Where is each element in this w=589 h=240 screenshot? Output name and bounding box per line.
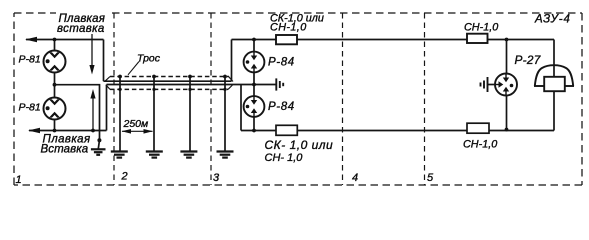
- arrester P-81 lower arrows and dot: [46, 99, 60, 117]
- node: bottom wire at arrester: [53, 129, 57, 133]
- node: top wire at arrester: [53, 38, 57, 42]
- arrester P-84 upper circle: [244, 52, 265, 73]
- wire: stem to P-84 upper: [253, 40, 255, 52]
- wire: P-27 to ground (section 5): [488, 84, 496, 86]
- wire: stem to P-27: [506, 40, 508, 74]
- wire: riser right of bundle to top wire: [231, 40, 233, 82]
- ground section 1: [91, 149, 106, 155]
- section separator 3/4: [342, 13, 344, 185]
- svg-text:250м: 250м: [123, 118, 149, 130]
- wire: riser top wire down to bundle (x=103.5): [103, 40, 105, 82]
- line pair solid upper: [104, 80, 232, 82]
- cable end diagonals left: [105, 77, 110, 82]
- junction support 2 upper: [152, 75, 156, 79]
- svg-text:Р-84: Р-84: [268, 57, 295, 69]
- wire: top line section 1 with left arrow: [26, 39, 104, 41]
- line pair solid lower: [107, 84, 276, 86]
- arrester P-81 upper arrows and dot: [46, 52, 60, 70]
- outer dashed border right: [581, 13, 583, 185]
- wire: bottom line section 1 with left arrow: [29, 130, 107, 132]
- telephone receiver box: [544, 77, 565, 91]
- svg-text:Р-27: Р-27: [515, 53, 541, 67]
- outer dashed border left: [13, 13, 15, 185]
- fuse leader arrow (bottom): [92, 97, 94, 131]
- svg-text:Трос: Трос: [137, 53, 161, 65]
- support ground 4: [217, 152, 234, 158]
- svg-text:5: 5: [427, 172, 434, 184]
- wire: stem lower P-81 to bottom wire: [54, 120, 56, 131]
- svg-text:СК- 1,0 или: СК- 1,0 или: [265, 138, 334, 152]
- section separator 4/5: [424, 13, 426, 185]
- support ground 2: [146, 152, 163, 158]
- junction support 3 lower: [188, 88, 191, 91]
- node: top wire at P-84 chain: [252, 38, 256, 42]
- support ground 3: [180, 152, 197, 158]
- wire: stem P-27 to bottom wire: [506, 96, 508, 131]
- node: bottom wire at P-27: [505, 128, 509, 132]
- arrester P-84 lower arrows and dot: [246, 97, 258, 117]
- support wire 2: [153, 77, 155, 151]
- node: mid P-84s: [252, 83, 256, 87]
- junction support 4 lower: [223, 88, 226, 91]
- svg-text:СН-1,0: СН-1,0: [270, 22, 307, 34]
- arrester P-84 lower circle: [244, 96, 265, 117]
- arrester P-81 upper circle: [44, 51, 66, 73]
- arrester P-81 upper: stem top: [54, 40, 56, 51]
- junction support 4 upper: [223, 75, 227, 79]
- wire: jog to ground: [98, 140, 99, 149]
- arrow to line (top left): [25, 37, 37, 43]
- node on drop: [97, 138, 101, 142]
- svg-text:вставка: вставка: [57, 23, 105, 35]
- junction support 3 upper: [188, 75, 192, 79]
- wire: link between P-84s: [253, 72, 255, 96]
- outer dashed border bottom: [14, 184, 582, 186]
- junction support 1 upper: [118, 75, 122, 79]
- svg-text:4: 4: [352, 172, 358, 184]
- fuse leader arrow (top): [91, 34, 93, 67]
- cable (tros) dashed upper: [110, 76, 229, 78]
- junction support 2 lower: [152, 88, 155, 91]
- wire: riser bottom wire up to bundle (x=106.5): [106, 85, 108, 131]
- wire: bottom line sections 3-5: [241, 130, 554, 132]
- cable end diagonals right: [229, 77, 234, 82]
- wire: stem P-84 lower to bottom wire: [253, 117, 255, 131]
- junction support 1 lower: [118, 88, 121, 91]
- arrester P-27 circle: [495, 74, 517, 96]
- arrester P-84 upper arrows and dot: [246, 52, 258, 72]
- support ground 1: [111, 152, 128, 158]
- resistor SN top (section 5): [467, 34, 488, 43]
- wire: riser bundle lower to bottom wire: [240, 85, 242, 131]
- arrester P-81 lower circle: [44, 98, 66, 120]
- node: bottom wire at P-84 chain: [252, 129, 256, 133]
- arrow to line (bottom left): [28, 128, 40, 134]
- svg-text:2: 2: [121, 171, 128, 183]
- cable dashed lower: [110, 88, 228, 90]
- ground section 3 (horizontal): [276, 78, 283, 90]
- svg-text:Вставка: Вставка: [41, 143, 89, 155]
- svg-text:СН- 1,0: СН- 1,0: [265, 152, 304, 164]
- section separator 1/2: [113, 13, 115, 185]
- tros label leader: [128, 62, 139, 75]
- wire: right edge drop (through telephone): [553, 40, 555, 78]
- section separator 2/3: [210, 13, 212, 185]
- svg-text:3: 3: [213, 172, 220, 184]
- telephone receiver dome: [535, 65, 573, 86]
- wire: mid node to ground drop: [55, 85, 100, 140]
- node: bottom wire at leader: [91, 129, 95, 133]
- ground section 5 (horizontal): [481, 77, 488, 92]
- resistor SN bottom (section 5): [467, 123, 489, 133]
- svg-text:СН-1,0: СН-1,0: [464, 22, 498, 34]
- resistor SK/SN bottom (section 3): [276, 125, 297, 135]
- node: mid arresters section1: [53, 83, 57, 87]
- wire: link between P-81s: [54, 73, 56, 98]
- svg-text:Р-81: Р-81: [19, 54, 41, 66]
- outer dashed border top (gap under title): [14, 12, 56, 14]
- svg-text:Р-81: Р-81: [19, 102, 41, 114]
- arrester P-27 arrows and dot: [496, 74, 514, 95]
- svg-text:АЗУ-4: АЗУ-4: [534, 14, 571, 26]
- 250m dimension arrow: [122, 130, 153, 132]
- svg-text:СН-1,0: СН-1,0: [463, 139, 497, 151]
- support wire 4: [224, 77, 226, 151]
- svg-text:Р-84: Р-84: [268, 101, 295, 113]
- node: top wire at P-27: [505, 38, 509, 42]
- wire: top line sections 3-5: [232, 39, 555, 41]
- support wire 3: [189, 77, 191, 151]
- svg-text:1: 1: [16, 174, 22, 186]
- resistor SK/SN top (section 3): [276, 35, 297, 44]
- support wire 1: [119, 77, 121, 151]
